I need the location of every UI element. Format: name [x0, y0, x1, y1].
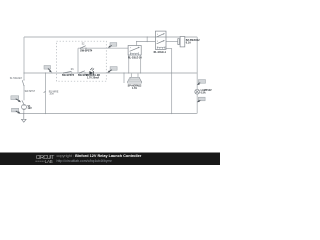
- junction at jog / pin2 wire: [147, 41, 148, 42]
- wire top sub-wire to relay RLY2: [78, 47, 128, 49]
- switch S1 on left rail: [22, 80, 24, 85]
- wire RLY1 right pin to buzzer: [166, 41, 178, 43]
- junction at igniter stub: [123, 72, 124, 73]
- wire right rail upper: [196, 37, 198, 90]
- junction at riser / bottom rail: [45, 113, 46, 114]
- relay RLY2: [128, 46, 141, 56]
- flag below lamp: [197, 97, 205, 102]
- wire RLY2 bottom pin 1: [128, 55, 130, 73]
- wire stub at igniter node: [123, 73, 125, 83]
- switch S5 inside box on mid row: [64, 71, 72, 73]
- footer bar: [0, 153, 220, 166]
- svg-text:10m: 10m: [49, 94, 54, 96]
- flag at top sub-wire node: [108, 43, 117, 48]
- svg-text:0.1A: 0.1A: [186, 41, 191, 44]
- dashed enclosure box: [57, 41, 107, 81]
- wire inner vertical in dashed box: [77, 48, 79, 73]
- flag for switch S2: [11, 96, 21, 102]
- junction at RLY2 pin2 / mid row: [140, 72, 141, 73]
- LED D1: [89, 68, 94, 75]
- buzzer BZ1: [178, 37, 185, 47]
- svg-text:LAB: LAB: [45, 159, 53, 164]
- junction at RLY2 top pin tee: [136, 41, 137, 42]
- junction at V1 / bottom rail: [23, 113, 24, 114]
- junction at riser2 / bottom rail: [171, 113, 172, 114]
- flag above lamp: [197, 80, 206, 86]
- switch S7 on top sub-wire: [81, 46, 86, 48]
- svg-text:SW-SPST4: SW-SPST4: [80, 50, 93, 53]
- junction at RLY2 pin1 / mid row: [128, 72, 129, 73]
- footer copyright text: [57, 154, 142, 163]
- horn speaker SP1: [128, 77, 142, 83]
- flag for row switch S4: [44, 66, 52, 73]
- wire horn stub right: [137, 73, 139, 77]
- wire mid row: [24, 72, 197, 74]
- switch S2 lever on left rail: [22, 100, 24, 104]
- switch S4 contact dot: [52, 73, 53, 74]
- wire RLY1 pin2 to RLY2 top vertical: [137, 41, 156, 43]
- junction at left rail / mid row: [23, 72, 24, 73]
- wire RLY1 right pin riser: [166, 48, 172, 113]
- svg-text:S1 SW-KEY: S1 SW-KEY: [10, 78, 23, 80]
- svg-text:http://circuitlab.com/c/bq4ub4: http://circuitlab.com/c/bq4ub4t/bymr: [57, 159, 113, 163]
- wire left rail mid: [23, 86, 25, 101]
- wire horn stub left: [130, 73, 132, 77]
- wire tick on riser: [44, 91, 46, 92]
- flag for bottom switch S3: [12, 108, 21, 113]
- svg-text:SW-SPST5: SW-SPST5: [62, 74, 75, 77]
- flag at mid row node: [107, 67, 117, 73]
- CircuitLab logo: [36, 155, 56, 164]
- wire right rail lower: [196, 94, 198, 114]
- svg-text:SW-SPST: SW-SPST: [25, 91, 36, 93]
- junction at top rail / RLY1 jog: [147, 36, 148, 37]
- svg-text:RL-G5LE-1: RL-G5LE-1: [154, 51, 167, 54]
- ground: [22, 114, 27, 123]
- wire RLY2 bottom pin 2: [140, 55, 142, 73]
- junction at inner vertical / mid row: [77, 72, 78, 73]
- svg-text:RL-G5LE-14: RL-G5LE-14: [128, 57, 142, 60]
- svg-text:1.7V 20mA: 1.7V 20mA: [87, 76, 99, 79]
- junction at riser top: [45, 72, 46, 73]
- relay RLY1: [155, 31, 166, 49]
- lamp LA1: [195, 89, 200, 94]
- voltage source V1: [22, 105, 27, 110]
- wire bottom rail: [19, 113, 197, 115]
- switch S6 inside box on mid row: [80, 71, 85, 73]
- svg-text:0.5A: 0.5A: [201, 92, 206, 95]
- wire V1 bottom stub: [23, 110, 25, 114]
- svg-text:1.7A: 1.7A: [132, 87, 137, 90]
- svg-text:copyright : Binford 12V Relay: copyright : Binford 12V Relay Launch Con…: [57, 154, 142, 158]
- wire left rail upper: [23, 37, 25, 80]
- wire RLY1 pin jog from top rail: [146, 37, 148, 42]
- junction at riser2 / mid row: [171, 72, 172, 73]
- wire top rail: [24, 36, 197, 38]
- svg-text:12V: 12V: [28, 107, 33, 110]
- wire riser from mid row to bottom rail: [45, 73, 47, 114]
- wire RLY2 top pin: [136, 42, 138, 46]
